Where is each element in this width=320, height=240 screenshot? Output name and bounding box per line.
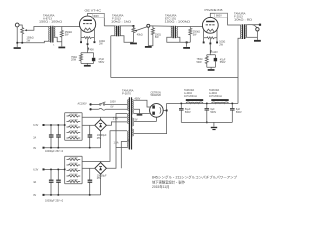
terminal V2 hum wiper [209, 39, 211, 45]
resistor hum balance V1 [84, 37, 91, 39]
svg-text:2A: 2A [33, 136, 36, 139]
transformer T2 interstage TAMURA F-2013 [104, 26, 133, 43]
winding T5 bias right [132, 129, 133, 136]
terminal V2 filament A [203, 38, 205, 44]
wire T4 secondary bottom [247, 36, 257, 38]
svg-text:GE VT-4C: GE VT-4C [85, 9, 102, 13]
wire tap heater C to bridge2 top rail [82, 131, 127, 162]
svg-text:6.3V: 6.3V [33, 169, 38, 172]
svg-text:40kΩ: 40kΩ [137, 33, 143, 36]
wire / ground T3 [183, 42, 190, 49]
wire tap heater E [121, 142, 127, 169]
resistor hum balance V2 [207, 37, 214, 39]
svg-text:10H 200mA: 10H 200mA [209, 95, 222, 98]
svg-text:150Ω : 100kΩ: 150Ω : 100kΩ [165, 19, 191, 23]
svg-text:45V: 45V [90, 48, 95, 51]
svg-text:0V: 0V [33, 194, 36, 197]
wire V1 cathode [81, 45, 94, 53]
ground T1 secondary [58, 47, 65, 49]
potentiometer VR2 40kΩ [132, 26, 148, 42]
svg-text:100V: 100V [110, 101, 116, 104]
svg-text:0V: 0V [111, 106, 114, 109]
terminal AC input N [89, 108, 91, 110]
wire V1 filament legs [81, 29, 94, 38]
winding T5 HV right [132, 100, 133, 115]
svg-text:1Ω 10W: 1Ω 10W [70, 157, 79, 159]
fuse F1 [92, 108, 127, 110]
svg-text:500V: 500V [185, 111, 191, 114]
wire V2 filament legs [204, 30, 217, 38]
wire T3 secondary bottom [176, 37, 180, 42]
wire 5V tap to rectifier filament 1 [134, 117, 156, 121]
wire T4 secondary top / output [247, 24, 260, 26]
tube V2 PSVANE 845 [202, 17, 218, 33]
resistor R1 250kΩ [60, 27, 63, 47]
svg-text:1Ω 10W: 1Ω 10W [70, 179, 79, 181]
svg-text:5V: 5V [135, 118, 138, 121]
wire 5V tap to rectifier filament 2 / B+ takeoff [134, 103, 167, 133]
svg-text:地下実験室設計・製作: 地下実験室設計・製作 [152, 179, 186, 184]
label cathode V1 45V [88, 48, 95, 52]
svg-text:1Ω 10W: 1Ω 10W [70, 136, 79, 138]
svg-text:3A: 3A [33, 181, 36, 184]
wire B+ filter rail [167, 102, 238, 104]
ground J2/R3 [145, 46, 152, 48]
svg-text:10kΩ : 1kΩ: 10kΩ : 1kΩ [111, 19, 131, 23]
wire grid V1 [62, 26, 80, 28]
capacitor C3 10000µF 25V [88, 125, 93, 147]
svg-text:10kΩ : 8Ω: 10kΩ : 8Ω [234, 18, 252, 22]
ground PSU [211, 127, 217, 130]
wire HV tap to rectifier plate 1 [134, 100, 150, 107]
ground HV center tap [137, 114, 143, 116]
svg-text:20W: 20W [71, 59, 77, 62]
svg-text:0V: 0V [33, 147, 36, 150]
svg-text:845シングル・211シングルコンパチブルパワーアンプ: 845シングル・211シングルコンパチブルパワーアンプ [152, 175, 238, 180]
wire tap heater D to bridge2 right [106, 114, 127, 169]
resistor R4 250kΩ [189, 27, 192, 43]
ground input [14, 47, 21, 49]
wire T4 primary bottom to B+ [238, 38, 240, 103]
svg-text:1Ω 10W: 1Ω 10W [70, 174, 79, 176]
wire input ground rail [17, 41, 48, 43]
svg-text:1Ω 10W: 1Ω 10W [70, 163, 79, 165]
terminal V1 hum wiper [87, 39, 89, 46]
svg-text:2015年11月: 2015年11月 [152, 184, 170, 189]
meter M1 output [252, 25, 259, 40]
input jack J1 [15, 23, 22, 27]
wire bridge2 left to cap/bank [82, 167, 95, 169]
wire V1 plate to T2 [88, 13, 105, 26]
winding T5 primary left [128, 100, 129, 111]
ground output [254, 40, 261, 42]
resistor R2 cathode 750Ω [80, 53, 83, 64]
capacitor C10 6µF 500V [205, 103, 210, 122]
label 860V [215, 13, 228, 17]
choke L2 TAMURA A-4004 [211, 99, 228, 103]
svg-text:300V: 300V [93, 15, 99, 18]
terminal 6.3V block2 [33, 168, 64, 171]
resistor R5 cathode 750Ω 50W [205, 55, 208, 68]
svg-text:6.3V: 6.3V [33, 124, 38, 127]
capacitor C9 51µF 500V [179, 103, 184, 122]
svg-text:550V: 550V [99, 61, 105, 64]
svg-text:10000µF 25V ×2: 10000µF 25V ×2 [45, 150, 64, 153]
node pot/rail [21, 42, 23, 44]
resistor bank RB1 1Ω 10W x5 [65, 113, 82, 141]
winding T5 heater left 1 [128, 113, 129, 123]
svg-text:500V: 500V [236, 111, 242, 114]
wire V2 cathode [207, 44, 216, 54]
svg-text:PSVANE 845: PSVANE 845 [205, 8, 224, 12]
wire HV center tap [134, 109, 140, 114]
svg-text:1Ω 10W: 1Ω 10W [70, 168, 79, 170]
wire filter ground bus [181, 122, 232, 126]
ground VR2 [130, 43, 137, 45]
svg-text:1Ω 10W: 1Ω 10W [70, 130, 79, 132]
terminal AC input L [89, 103, 91, 105]
wire bridge2 top [100, 161, 102, 162]
node filter cap junctions [50, 124, 52, 126]
capacitor C7 10000µF [49, 169, 54, 195]
wire bridge1 left to cap/bank [82, 124, 95, 126]
winding T5 5V right [132, 118, 133, 126]
wire HV tap to rectifier plate 2 [134, 113, 150, 115]
capacitor C8 10000µF [56, 169, 61, 195]
node filter rail junctions [181, 103, 183, 105]
wire bridge1 top to bank1 [100, 117, 102, 119]
svg-text:1Ω 10W: 1Ω 10W [70, 125, 79, 127]
svg-text:AC100V: AC100V [78, 103, 87, 106]
winding T5 heater left 3 [128, 140, 129, 148]
transformer T3 interstage TAMURA A-8713 [171, 26, 202, 38]
label cathode V2 110V [210, 50, 218, 54]
capacitor C11 6µF 500V [230, 103, 235, 122]
wire T3 primary bottom [167, 37, 191, 42]
labels RB2 1Ω 10W [70, 157, 79, 181]
wire tap heater B to bridge1 right [106, 122, 127, 125]
svg-text:10H 200mA: 10H 200mA [184, 95, 197, 98]
terminal V2 filament B [216, 38, 218, 44]
node B+ takeoff [166, 110, 168, 112]
terminal 0V block2 [33, 194, 100, 197]
rectifier V3 CETRON 5R4WGB [150, 104, 164, 118]
svg-text:500V: 500V [210, 111, 216, 114]
transformer T4 output TAMURA F-2013 [240, 24, 247, 39]
node T3 ground junction [186, 41, 188, 43]
wire jack ground lead [16, 27, 18, 47]
labels RB1 1Ω 10W [70, 114, 79, 138]
svg-text:5R4WGB: 5R4WGB [151, 94, 162, 97]
capacitor C4 10000µF [49, 125, 54, 148]
terminal output [259, 24, 261, 26]
resistor bank RB2 1Ω 10W x5 [65, 156, 82, 184]
jack J2 selector [147, 24, 172, 46]
capacitor C6 10000µF 25V [88, 168, 93, 195]
svg-text:1Ω 10W: 1Ω 10W [70, 119, 79, 121]
svg-text:860V: 860V [216, 15, 222, 18]
svg-text:550V: 550V [220, 61, 226, 64]
svg-text:1Ω 10W: 1Ω 10W [70, 114, 79, 116]
bridge rectifier D1 [95, 120, 107, 132]
capacitor C2 47µF 550V [214, 55, 217, 68]
wire tap heater A to bank1 [82, 116, 127, 118]
wire bridge1 bottom to 0V rail [100, 131, 102, 148]
terminal V1 filament B [94, 38, 96, 44]
winding T5 heater left 2 [128, 131, 129, 141]
svg-text:2.5A: 2.5A [113, 117, 118, 120]
svg-text:10000µF 25V ×2: 10000µF 25V ×2 [45, 199, 64, 202]
terminal 0V block1 [33, 147, 100, 150]
resistor R3 150Ω [148, 26, 154, 46]
wire T2 primary bottom to B+ rail [110, 36, 112, 78]
node T2/VR2 [133, 25, 135, 27]
svg-text:25V: 25V [97, 177, 102, 180]
capacitor C5 10000µF [56, 125, 61, 148]
svg-text:50W: 50W [197, 61, 203, 64]
switch SW1 [92, 102, 127, 105]
wire cathode bottom / ground V2 [207, 67, 216, 70]
svg-text:110V: 110V [212, 51, 218, 54]
capacitor C1 47µF 550V [92, 53, 95, 64]
potentiometer VR1 [21, 27, 49, 43]
wire bridge2 bottom to 0V rail2 [100, 174, 102, 195]
node jack/rail [16, 42, 18, 44]
svg-text:25V: 25V [97, 137, 102, 140]
svg-text:150Ω : 100kΩ: 150Ω : 100kΩ [39, 19, 62, 23]
transformer T1 input TAMURA A-8713 [49, 26, 62, 43]
transformer T5 power TAMURA P-3070 [129, 97, 132, 149]
terminal V1 filament A [80, 38, 82, 44]
wire cathode bottom / ground V1 [81, 63, 94, 66]
bridge rectifier D2 [95, 163, 107, 175]
label 300V [92, 13, 104, 18]
choke L1 TAMURA A-4004 [186, 99, 203, 103]
wire V2 plate to T4 [210, 13, 240, 25]
wire B+ rail [111, 77, 238, 79]
terminal 6.3V block1 [33, 124, 64, 127]
svg-text:P-3070: P-3070 [122, 92, 131, 96]
tube V1 GE VT-4C (211) [80, 16, 96, 32]
